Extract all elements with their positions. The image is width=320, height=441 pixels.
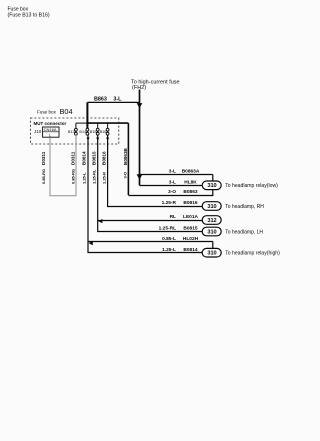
svg-text:3-L: 3-L bbox=[169, 179, 176, 185]
svg-text:To headlamp, RH: To headlamp, RH bbox=[225, 204, 264, 210]
svg-text:1.25-L: 1.25-L bbox=[81, 172, 86, 184]
svg-text:B0814: B0814 bbox=[82, 151, 87, 165]
svg-text:D0311: D0311 bbox=[41, 151, 46, 165]
svg-text:CN16A: CN16A bbox=[44, 127, 57, 132]
svg-text:B0815: B0815 bbox=[183, 226, 197, 232]
svg-text:B0863A: B0863A bbox=[182, 169, 200, 175]
svg-text:HL8K: HL8K bbox=[184, 179, 197, 185]
svg-text:B0863: B0863 bbox=[183, 189, 197, 195]
svg-text:MUT connector: MUT connector bbox=[34, 121, 67, 126]
svg-text:1.25-R: 1.25-R bbox=[101, 172, 106, 184]
svg-text:1.25-R: 1.25-R bbox=[162, 200, 177, 206]
svg-text:B0815: B0815 bbox=[92, 151, 97, 165]
svg-text:310: 310 bbox=[207, 251, 216, 257]
svg-text:B0814: B0814 bbox=[183, 247, 197, 253]
svg-text:0.85-RG: 0.85-RG bbox=[70, 169, 75, 184]
svg-text:3-L: 3-L bbox=[169, 169, 176, 175]
svg-text:3-O: 3-O bbox=[123, 172, 128, 179]
svg-text:1.25-RL: 1.25-RL bbox=[91, 169, 96, 184]
svg-text:B863: B863 bbox=[94, 97, 107, 103]
svg-text:J10: J10 bbox=[34, 129, 42, 134]
svg-text:0.85-RG: 0.85-RG bbox=[41, 169, 46, 184]
svg-text:3-O: 3-O bbox=[168, 189, 176, 195]
svg-text:To headlamp, LH: To headlamp, LH bbox=[225, 229, 263, 235]
svg-text:To headlamp relay(low): To headlamp relay(low) bbox=[225, 183, 278, 189]
svg-text:310: 310 bbox=[207, 229, 216, 235]
svg-text:B0816: B0816 bbox=[102, 151, 107, 165]
svg-text:Fuse box: Fuse box bbox=[37, 109, 57, 114]
svg-text:To headlamp relay(high): To headlamp relay(high) bbox=[225, 251, 280, 257]
svg-text:1.25-RL: 1.25-RL bbox=[159, 226, 176, 232]
svg-text:B16: B16 bbox=[100, 130, 107, 134]
svg-text:LE01A: LE01A bbox=[183, 214, 198, 220]
svg-text:RL: RL bbox=[170, 214, 176, 220]
svg-text:312: 312 bbox=[207, 218, 216, 224]
svg-text:310: 310 bbox=[207, 183, 216, 189]
svg-text:D0311: D0311 bbox=[71, 151, 76, 165]
svg-text:B14: B14 bbox=[79, 130, 86, 134]
svg-text:(Fuse B13 to B16): (Fuse B13 to B16) bbox=[8, 12, 50, 18]
svg-text:HL02H: HL02H bbox=[183, 236, 199, 242]
svg-text:310: 310 bbox=[207, 204, 216, 210]
svg-text:B0863B: B0863B bbox=[123, 147, 128, 165]
svg-text:B13: B13 bbox=[68, 130, 75, 134]
svg-text:1: 1 bbox=[49, 134, 51, 138]
svg-text:B04: B04 bbox=[60, 107, 73, 116]
svg-text:1.25-L: 1.25-L bbox=[162, 247, 176, 253]
svg-text:0.85-L: 0.85-L bbox=[162, 236, 176, 242]
svg-text:3-L: 3-L bbox=[113, 97, 122, 103]
svg-text:B15: B15 bbox=[90, 130, 97, 134]
svg-text:B0816: B0816 bbox=[183, 200, 197, 206]
